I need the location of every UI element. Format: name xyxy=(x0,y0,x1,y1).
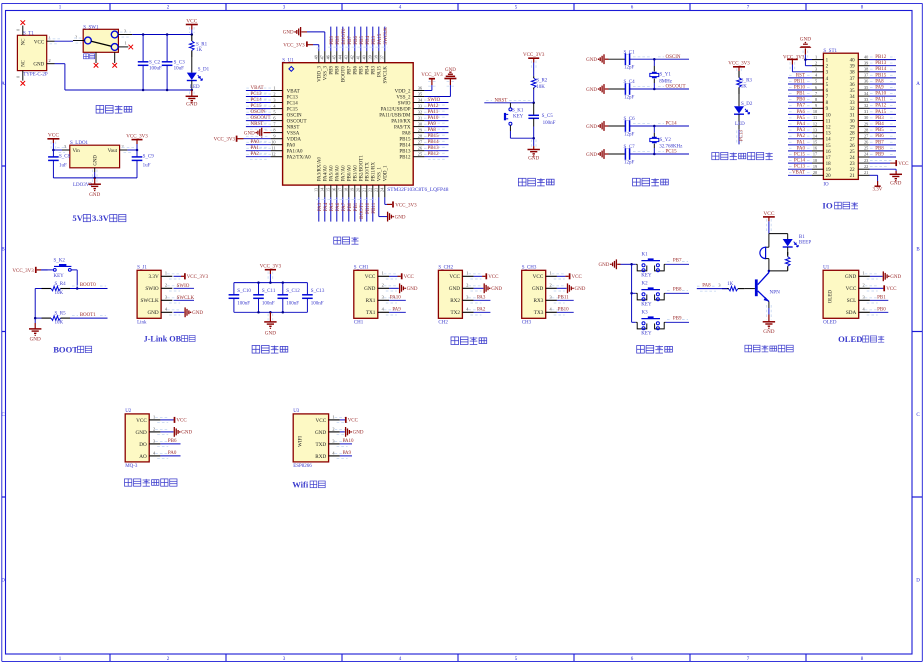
svg-text:32: 32 xyxy=(418,109,422,114)
IO pin 39 xyxy=(850,60,896,69)
svg-text:GND: GND xyxy=(845,274,856,280)
svg-text:PC13: PC13 xyxy=(794,165,806,170)
svg-text:VCC: VCC xyxy=(763,211,774,217)
svg-text:PA8: PA8 xyxy=(402,132,411,137)
svg-text:PB6: PB6 xyxy=(875,134,884,139)
svg-text:PA9: PA9 xyxy=(343,451,352,456)
ground GND IO bottom right xyxy=(890,174,902,186)
net label PC13 wire xyxy=(737,130,745,145)
svg-text:3: 3 xyxy=(153,438,155,443)
resistor S_R1 1K xyxy=(190,35,208,58)
svg-text:S_Y2: S_Y2 xyxy=(660,138,672,143)
chip pin 1 VBAT xyxy=(246,85,300,94)
svg-text:PB0/A0: PB0/A0 xyxy=(348,165,353,182)
svg-text:18: 18 xyxy=(813,158,817,163)
svg-text:9: 9 xyxy=(815,103,817,108)
svg-text:SCL: SCL xyxy=(847,298,857,304)
svg-text:GND: GND xyxy=(265,330,276,336)
title 5V转3.3V电路 xyxy=(72,213,126,223)
svg-text:VCC: VCC xyxy=(404,275,415,280)
chip pin 2 PC13 xyxy=(246,91,298,100)
svg-text:0: 0 xyxy=(16,76,21,78)
svg-text:RX3: RX3 xyxy=(533,298,543,304)
IO pin 17 xyxy=(788,152,831,161)
svg-text:GND: GND xyxy=(192,311,203,316)
svg-text:37: 37 xyxy=(850,77,856,82)
title OLED显示屏 xyxy=(838,334,884,344)
resistor S_R4 10K xyxy=(35,282,70,296)
svg-text:VCC_3V3: VCC_3V3 xyxy=(283,43,305,48)
title 滤波电路 xyxy=(252,346,288,354)
IO pin 14 xyxy=(788,134,831,143)
resistor below B1 xyxy=(785,247,790,271)
IO pin 40 xyxy=(850,54,896,63)
chip pin 29 PA8 xyxy=(402,127,448,136)
svg-text:1K: 1K xyxy=(196,48,203,53)
net SWIO wire xyxy=(174,284,195,289)
port VCC_3V3 chip bottom xyxy=(393,201,417,208)
svg-text:34: 34 xyxy=(850,95,856,100)
title BOOT电路 xyxy=(53,344,92,354)
svg-text:S_U1: S_U1 xyxy=(282,59,294,64)
svg-text:33: 33 xyxy=(850,101,856,106)
svg-text:20: 20 xyxy=(826,174,832,179)
svg-text:GND: GND xyxy=(283,31,294,36)
svg-text:PA3/RX/A0: PA3/RX/A0 xyxy=(318,157,323,182)
net PB8 wire xyxy=(666,288,689,294)
svg-text:OSCOUT: OSCOUT xyxy=(666,85,686,90)
svg-text:1uF: 1uF xyxy=(143,164,151,169)
svg-text:S_C13: S_C13 xyxy=(311,289,325,294)
svg-text:32.768KHz: 32.768KHz xyxy=(659,145,683,150)
svg-text:13: 13 xyxy=(313,188,318,192)
svg-text:PB7: PB7 xyxy=(673,259,682,264)
svg-text:VSS_3: VSS_3 xyxy=(324,66,329,81)
svg-text:11: 11 xyxy=(826,119,831,124)
svg-text:3.3V: 3.3V xyxy=(148,274,158,280)
button K3 KEY xyxy=(632,310,666,336)
svg-text:12pF: 12pF xyxy=(624,95,635,100)
chip pin 36 VDD_2 xyxy=(395,73,443,94)
svg-text:D: D xyxy=(1,579,5,584)
svg-text:Vin: Vin xyxy=(73,149,81,154)
net label NRST wire xyxy=(484,99,533,104)
svg-text:PA9: PA9 xyxy=(875,86,884,91)
transistor Q1 NPN xyxy=(755,271,780,302)
svg-text:3: 3 xyxy=(332,438,334,443)
svg-text:16: 16 xyxy=(826,150,832,155)
svg-text:1: 1 xyxy=(49,36,51,41)
svg-text:32: 32 xyxy=(850,107,856,112)
svg-text:1: 1 xyxy=(153,414,155,419)
svg-text:S_D1: S_D1 xyxy=(198,68,210,73)
svg-text:PA5: PA5 xyxy=(797,116,806,121)
connector S_T1 TYPE-C-2P xyxy=(17,31,47,77)
wire to net OSCIN xyxy=(630,55,689,61)
wire reset bottom xyxy=(510,137,535,140)
svg-text:KEY: KEY xyxy=(641,331,652,336)
svg-text:SWCLK: SWCLK xyxy=(177,296,195,301)
svg-text:SWIO: SWIO xyxy=(398,101,411,106)
title 晶振电路 xyxy=(633,178,669,186)
svg-text:PB14: PB14 xyxy=(875,67,887,72)
chip pin 26 PB13 xyxy=(399,146,448,155)
svg-text:1: 1 xyxy=(550,271,552,276)
svg-text:PB12: PB12 xyxy=(399,156,411,161)
svg-text:S_R3: S_R3 xyxy=(741,78,753,83)
svg-text:PB8: PB8 xyxy=(336,35,341,44)
ground flag GND S_CH2 pin2 xyxy=(474,283,503,293)
svg-text:42: 42 xyxy=(349,55,354,59)
connector U3 ESP8266 xyxy=(293,409,348,469)
svg-text:NRST: NRST xyxy=(287,126,300,131)
IO pin 9 xyxy=(788,103,829,112)
svg-text:S_C3: S_C3 xyxy=(174,61,186,66)
IO pin 26 xyxy=(850,140,896,149)
svg-text:SWIO: SWIO xyxy=(145,286,159,292)
wire BOOT left vertical xyxy=(34,289,37,324)
svg-text:PC13: PC13 xyxy=(287,95,299,100)
svg-text:K2: K2 xyxy=(642,281,649,286)
svg-text:5: 5 xyxy=(815,79,817,84)
svg-text:KEY: KEY xyxy=(54,274,65,279)
svg-text:VCC_3V3: VCC_3V3 xyxy=(260,265,282,270)
svg-text:PC14: PC14 xyxy=(666,122,678,127)
title Wifi模块 xyxy=(292,479,325,489)
svg-text:GND: GND xyxy=(575,287,586,292)
svg-text:PB3: PB3 xyxy=(372,66,377,75)
svg-text:GND: GND xyxy=(407,287,418,292)
svg-text:VCC_3V3: VCC_3V3 xyxy=(421,73,443,78)
svg-text:IO: IO xyxy=(822,200,832,210)
svg-text:10: 10 xyxy=(826,113,832,118)
power VCC_3V3 at LDO output xyxy=(126,134,148,150)
svg-text:STM32F103C8T6_LQFP48: STM32F103C8T6_LQFP48 xyxy=(387,187,448,193)
svg-text:28: 28 xyxy=(864,127,868,132)
svg-text:2: 2 xyxy=(122,144,124,149)
svg-text:S_C8: S_C8 xyxy=(59,154,71,159)
chip pin 12 PA2/TX/A0 xyxy=(246,152,311,161)
svg-text:AO: AO xyxy=(139,454,147,460)
svg-text:VBAT: VBAT xyxy=(287,89,300,94)
svg-text:27: 27 xyxy=(850,138,856,143)
svg-text:GND: GND xyxy=(599,263,610,268)
svg-text:BEEP: BEEP xyxy=(799,241,811,246)
button K1 KEY xyxy=(632,252,666,278)
title 声光报警电路 xyxy=(745,345,793,352)
svg-text:25: 25 xyxy=(864,146,868,151)
chip pin 17 PA7/A0 xyxy=(337,165,346,222)
svg-text:PA15: PA15 xyxy=(875,110,886,115)
svg-text:3: 3 xyxy=(550,295,552,300)
chip S_U1 STM32F103C8T6 body xyxy=(282,59,448,193)
svg-text:NC: NC xyxy=(22,39,27,46)
svg-text:PA9: PA9 xyxy=(428,122,437,127)
svg-text:26: 26 xyxy=(850,144,856,149)
svg-text:38: 38 xyxy=(850,71,856,76)
svg-text:PB9: PB9 xyxy=(330,35,335,44)
power VCC S_CH1 pin1 xyxy=(389,273,415,280)
svg-text:23: 23 xyxy=(850,162,856,167)
svg-text:40: 40 xyxy=(850,59,856,64)
svg-text:PB10/TX: PB10/TX xyxy=(366,162,371,182)
svg-text:A: A xyxy=(916,82,920,87)
svg-text:CH2: CH2 xyxy=(438,321,448,326)
svg-text:D: D xyxy=(916,579,920,584)
wire to net PC14 xyxy=(630,122,689,128)
wire bottom rail xyxy=(65,89,193,92)
svg-text:S_R5: S_R5 xyxy=(55,311,67,316)
capacitor S_C5 100nF xyxy=(528,103,555,138)
wire T1 to SW1 xyxy=(55,40,74,42)
svg-text:VCC_3V3: VCC_3V3 xyxy=(126,134,148,139)
svg-text:100uF: 100uF xyxy=(149,66,162,71)
wire to net PC15 xyxy=(630,150,689,156)
capacitor S_C2 100uF xyxy=(138,35,162,91)
chip pin 40 PB4 xyxy=(361,27,370,75)
svg-text:VCC: VCC xyxy=(186,18,197,24)
svg-text:RST: RST xyxy=(796,73,805,78)
svg-text:PB11: PB11 xyxy=(372,202,377,213)
svg-text:A: A xyxy=(1,82,5,87)
wire LDO bottom rail xyxy=(53,177,137,180)
svg-text:12: 12 xyxy=(813,121,817,126)
svg-text:VCC: VCC xyxy=(898,162,909,167)
svg-text:U1: U1 xyxy=(823,265,830,270)
svg-text:17: 17 xyxy=(826,156,832,161)
IO pin 13 xyxy=(788,127,831,136)
svg-text:RX2: RX2 xyxy=(450,298,460,304)
IO pin 36 xyxy=(850,79,896,88)
IO pin 11 xyxy=(788,115,831,124)
svg-text:PA9: PA9 xyxy=(392,307,401,312)
svg-text:K1: K1 xyxy=(642,252,649,257)
svg-text:20: 20 xyxy=(355,188,360,192)
ground flag GND S_CH3 pin2 xyxy=(557,283,586,293)
IO pin 16 xyxy=(788,146,831,155)
power VCC for LDO xyxy=(47,133,59,150)
svg-text:3: 3 xyxy=(382,295,384,300)
svg-text:15: 15 xyxy=(813,140,817,145)
svg-text:PA10: PA10 xyxy=(428,116,439,121)
svg-text:8: 8 xyxy=(273,127,275,132)
svg-text:VCC_3V3: VCC_3V3 xyxy=(523,53,545,58)
IO pin 32 xyxy=(850,103,896,112)
svg-text:VDD_2: VDD_2 xyxy=(395,89,411,94)
svg-text:GND: GND xyxy=(528,156,539,162)
svg-text:35: 35 xyxy=(864,85,868,90)
svg-text:PA11: PA11 xyxy=(428,110,439,115)
svg-text:VCC: VCC xyxy=(176,419,187,424)
ground flag GND chip top xyxy=(283,27,301,37)
svg-text:45: 45 xyxy=(331,55,336,59)
svg-text:PA2: PA2 xyxy=(477,307,486,312)
svg-text:PA0: PA0 xyxy=(168,451,177,456)
svg-text:PC13: PC13 xyxy=(740,130,745,142)
ground flag GND U3 pin2 xyxy=(340,427,364,437)
button S_K1 KEY xyxy=(504,103,524,138)
chip pin 42 PB6 xyxy=(349,27,358,75)
ground flag GND keys xyxy=(599,259,632,269)
net PA10 wire U3 pin3 xyxy=(340,439,354,444)
chip pin 13 PA3/RX/A0 xyxy=(313,157,322,222)
svg-text:S_J1: S_J1 xyxy=(137,265,147,270)
svg-text:KEY: KEY xyxy=(513,115,524,120)
svg-text:PA1: PA1 xyxy=(251,146,260,151)
svg-text:VCC: VCC xyxy=(886,287,897,292)
chip pin 33 PA12/USB/DP xyxy=(381,103,449,112)
chip pin 35 VSS_2 xyxy=(396,68,456,100)
svg-text:1uF: 1uF xyxy=(59,164,67,169)
svg-text:PA11/USB/DM: PA11/USB/DM xyxy=(379,114,411,119)
power VCC_3V3 IO left xyxy=(783,56,805,72)
svg-text:12pF: 12pF xyxy=(624,132,635,137)
capacitor S_C11 100nF xyxy=(253,283,276,313)
wire R2 to node xyxy=(532,89,535,104)
svg-text:GND: GND xyxy=(186,102,197,108)
IO pin 4 xyxy=(788,73,829,82)
svg-text:S_C11: S_C11 xyxy=(262,289,276,294)
svg-text:GND: GND xyxy=(93,155,98,166)
svg-text:PA10/RX: PA10/RX xyxy=(391,120,411,125)
power VCC S_CH3 pin1 xyxy=(557,273,583,280)
svg-text:30: 30 xyxy=(418,121,422,126)
svg-text:1: 1 xyxy=(863,271,865,276)
svg-text:24: 24 xyxy=(850,156,856,161)
svg-text:KEY: KEY xyxy=(641,273,652,278)
wire top rail xyxy=(132,33,193,36)
svg-text:PC14: PC14 xyxy=(794,159,806,164)
svg-text:13: 13 xyxy=(813,127,817,132)
svg-text:2: 2 xyxy=(273,91,275,96)
svg-text:S_SW1: S_SW1 xyxy=(83,25,99,30)
svg-text:GND: GND xyxy=(586,125,597,130)
IO pin 37 xyxy=(850,73,896,82)
svg-text:PB6: PB6 xyxy=(354,35,359,44)
svg-text:S_C4: S_C4 xyxy=(624,80,636,85)
pin 2 Vout xyxy=(120,144,134,153)
capacitor S_C13 100nF xyxy=(302,283,325,313)
svg-text:5V: 5V xyxy=(72,213,83,223)
svg-text:18: 18 xyxy=(826,162,832,167)
ground GND reset xyxy=(528,138,540,161)
svg-text:21: 21 xyxy=(864,170,868,175)
svg-text:S_C12: S_C12 xyxy=(286,289,300,294)
chip pin 34 SWIO xyxy=(398,97,449,106)
svg-text:NPN: NPN xyxy=(770,290,781,296)
svg-text:GND: GND xyxy=(244,131,255,136)
svg-text:VCC: VCC xyxy=(365,274,376,280)
svg-text:PB5: PB5 xyxy=(360,35,365,44)
svg-text:25: 25 xyxy=(418,152,422,157)
svg-text:VCC: VCC xyxy=(316,418,327,424)
svg-text:40: 40 xyxy=(864,54,868,59)
connector S_ST1 IO header body xyxy=(823,49,858,188)
svg-text:PB0: PB0 xyxy=(796,98,805,103)
chip pin 11 PA1/A0 xyxy=(246,146,303,155)
svg-text:3: 3 xyxy=(273,97,275,102)
svg-text:PA8: PA8 xyxy=(702,284,711,289)
capacitor S_C4 12pF xyxy=(586,80,635,100)
svg-text:PB10: PB10 xyxy=(558,307,570,312)
svg-text:GND: GND xyxy=(364,286,375,292)
IO pin 38 xyxy=(850,67,896,76)
svg-text:SWCLK: SWCLK xyxy=(384,27,389,45)
svg-text:PB14: PB14 xyxy=(399,144,411,149)
svg-text:PB0: PB0 xyxy=(877,307,886,312)
svg-text:NC: NC xyxy=(22,60,27,67)
capacitor S_C12 100nF xyxy=(278,283,301,313)
svg-text:PA12/USB/DP: PA12/USB/DP xyxy=(381,108,411,113)
svg-text:S_CH3: S_CH3 xyxy=(522,265,537,270)
power VCC U3 pin1 xyxy=(340,417,359,424)
chip pin 41 PB5 xyxy=(355,27,364,75)
svg-text:PB11/RX: PB11/RX xyxy=(372,162,377,182)
net PB11 wire S_CH3 pin3 xyxy=(557,295,574,300)
chip pin 47 VSS_3 xyxy=(301,32,328,80)
svg-text:PA10: PA10 xyxy=(390,295,401,300)
svg-text:PA5/A0: PA5/A0 xyxy=(330,165,335,181)
svg-text:PA15: PA15 xyxy=(378,66,383,77)
svg-text:PA3: PA3 xyxy=(477,295,486,300)
svg-text:PC15: PC15 xyxy=(666,150,678,155)
svg-text:GND: GND xyxy=(147,310,158,316)
svg-text:2: 2 xyxy=(815,60,817,65)
IO pin 31 xyxy=(850,109,896,118)
svg-text:PB3: PB3 xyxy=(875,116,884,121)
net BOOT0 wire xyxy=(70,283,108,288)
chip pin 6 OSCOUT xyxy=(246,115,307,124)
wire filter bottom rail xyxy=(234,311,308,314)
resistor S_R3 1K xyxy=(737,71,753,94)
svg-text:PB15: PB15 xyxy=(428,134,440,139)
svg-text:TYPE-C-2P: TYPE-C-2P xyxy=(23,72,48,77)
svg-text:39: 39 xyxy=(850,65,856,70)
svg-text:GND: GND xyxy=(491,287,502,292)
title 按键电路 xyxy=(637,346,673,354)
title 电源电路 xyxy=(96,106,132,114)
svg-text:S_R1: S_R1 xyxy=(196,42,208,47)
svg-text:Vout: Vout xyxy=(108,149,118,154)
chip pin 48 VDD_3 xyxy=(313,45,323,82)
svg-text:18: 18 xyxy=(343,188,348,192)
svg-text:100nF: 100nF xyxy=(286,301,299,306)
svg-text:PC15: PC15 xyxy=(287,108,299,113)
ground GND BOOT xyxy=(29,323,41,342)
wire filter top rail xyxy=(234,281,308,284)
svg-text:GND: GND xyxy=(586,58,597,63)
chip pin 39 PB3 xyxy=(367,27,376,75)
switch S_SW1 xyxy=(83,25,118,52)
svg-text:S_K1: S_K1 xyxy=(512,108,524,113)
chip pin 28 PB15 xyxy=(399,134,448,143)
svg-text:PB3: PB3 xyxy=(372,35,377,44)
svg-text:PA5: PA5 xyxy=(330,202,335,211)
pin 0 top no-connect xyxy=(16,20,26,35)
svg-text:PA4/A0: PA4/A0 xyxy=(324,165,329,181)
IO pin 1 xyxy=(805,54,828,63)
net PB1 wire OLED pin3 xyxy=(870,295,888,300)
svg-text:1K: 1K xyxy=(741,85,748,90)
IO pin 2 xyxy=(805,60,828,70)
svg-text:GND: GND xyxy=(449,286,460,292)
chip pin 27 PB14 xyxy=(399,140,448,149)
IO pin 24 xyxy=(850,152,896,161)
chip pin 32 PA11/USB/DM xyxy=(379,109,448,118)
svg-text:OLED: OLED xyxy=(838,334,862,344)
svg-text:PA2: PA2 xyxy=(797,134,806,139)
svg-text:PB11: PB11 xyxy=(558,295,569,300)
